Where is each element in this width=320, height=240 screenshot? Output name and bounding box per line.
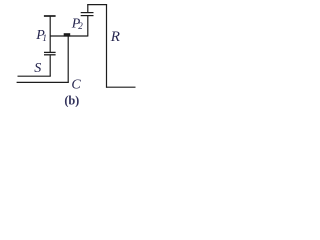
- wire P1 lower vertical: [49, 55, 51, 76]
- wire top horizontal node A: [50, 35, 88, 37]
- resistor R column wire: [106, 5, 108, 88]
- svg-text:2: 2: [78, 21, 83, 31]
- wire bottom horizontal: [17, 81, 69, 83]
- piston P1 upper rod (wire): [49, 16, 51, 52]
- svg-text:1: 1: [42, 33, 47, 43]
- svg-text:R: R: [110, 29, 120, 45]
- capacitor P2 plate lower: [81, 15, 94, 17]
- wire C vertical: [67, 36, 69, 82]
- switch S arm wire: [18, 75, 51, 77]
- capacitor P2 plate upper: [81, 12, 94, 14]
- wire P2 lower vertical: [87, 16, 89, 37]
- svg-text:S: S: [34, 61, 41, 76]
- piston P1 top bar: [44, 15, 56, 17]
- wire top right horizontal: [87, 4, 107, 6]
- capacitor P1 plate upper: [44, 51, 56, 53]
- svg-text:(b): (b): [64, 93, 79, 107]
- svg-text:C: C: [71, 77, 81, 92]
- capacitor P1 plate lower: [44, 54, 56, 56]
- piston slider block: [64, 33, 70, 36]
- wire P2 upper vertical: [87, 5, 89, 13]
- wire bottom right horizontal: [107, 86, 136, 88]
